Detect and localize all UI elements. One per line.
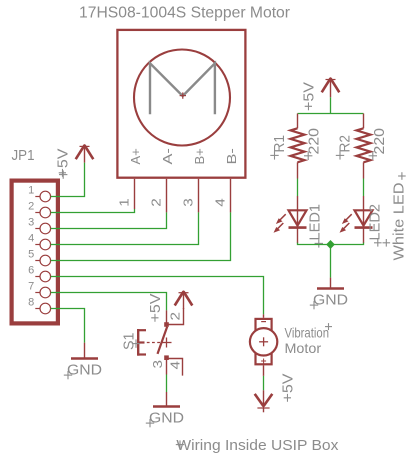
svg-text:GND: GND — [149, 410, 184, 427]
svg-text:4: 4 — [168, 361, 183, 370]
svg-text:LED1: LED1 — [307, 204, 324, 241]
svg-text:2: 2 — [28, 200, 34, 212]
svg-text:17HS08-1004S Stepper Motor: 17HS08-1004S Stepper Motor — [79, 5, 291, 22]
svg-text:7: 7 — [28, 280, 34, 292]
svg-text:White LED: White LED — [391, 182, 408, 260]
svg-text:+5V: +5V — [147, 294, 164, 323]
svg-text:4: 4 — [212, 198, 227, 207]
svg-text:220: 220 — [306, 128, 323, 155]
svg-text:8: 8 — [28, 296, 34, 308]
svg-text:1: 1 — [116, 198, 131, 207]
svg-text:A-: A- — [160, 148, 175, 164]
svg-text:220: 220 — [371, 128, 388, 155]
svg-text:3: 3 — [180, 198, 195, 207]
svg-text:A+: A+ — [128, 148, 143, 164]
svg-text:Wiring Inside USIP Box: Wiring Inside USIP Box — [176, 437, 339, 454]
svg-text:Motor: Motor — [285, 340, 322, 356]
svg-text:Vibration: Vibration — [285, 325, 330, 341]
svg-text:+5V: +5V — [55, 149, 72, 178]
svg-text:R2: R2 — [337, 135, 354, 153]
svg-text:B+: B+ — [192, 148, 207, 164]
svg-text:3: 3 — [28, 216, 34, 228]
svg-text:6: 6 — [28, 264, 34, 276]
svg-text:R1: R1 — [271, 135, 288, 153]
svg-text:5: 5 — [28, 248, 34, 260]
svg-text:JP1: JP1 — [12, 148, 35, 164]
svg-text:+5V: +5V — [301, 82, 318, 111]
svg-text:1: 1 — [28, 184, 34, 196]
svg-text:GND: GND — [67, 362, 102, 379]
svg-text:3: 3 — [150, 360, 165, 369]
svg-text:GND: GND — [313, 292, 348, 309]
svg-text:+5V: +5V — [280, 374, 297, 403]
svg-text:4: 4 — [28, 232, 34, 244]
svg-text:B-: B- — [224, 148, 239, 164]
svg-text:2: 2 — [148, 198, 163, 207]
svg-text:2: 2 — [168, 312, 183, 321]
svg-text:LED2: LED2 — [367, 204, 384, 241]
svg-text:S1: S1 — [122, 333, 138, 351]
